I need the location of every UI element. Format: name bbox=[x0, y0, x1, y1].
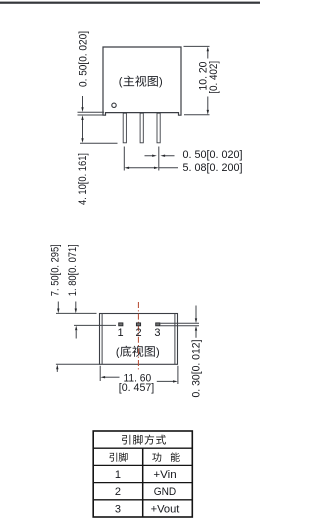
svg-text:): ) bbox=[159, 76, 163, 88]
table column header 功能 bbox=[152, 452, 179, 461]
table column header 引脚 bbox=[109, 453, 127, 462]
dimension 1.80[0.071]: lower arrow bbox=[75, 330, 77, 338]
svg-text:5. 08[0. 200]: 5. 08[0. 200] bbox=[183, 162, 243, 174]
bottom view: red center line (dash-dot) bbox=[137, 302, 139, 372]
dimension 5.08[0.200] pin pitch: extension lines below pins 1 and 3 bbox=[124, 147, 159, 171]
svg-text:3: 3 bbox=[154, 327, 160, 339]
dimension 10.20[0.402]: dimension line with arrows bbox=[207, 51, 209, 111]
extension line at case bottom (left) bbox=[56, 363, 100, 365]
svg-text:0. 30[0. 012]: 0. 30[0. 012] bbox=[191, 340, 203, 398]
svg-text:2: 2 bbox=[136, 327, 142, 339]
dimension 11.60[0.457]: left segment with arrow bbox=[105, 376, 120, 378]
svg-text:1: 1 bbox=[118, 327, 124, 339]
svg-text:1. 80[0. 071]: 1. 80[0. 071] bbox=[67, 244, 79, 296]
inner case lines (bottom view) bbox=[102, 314, 175, 365]
top page rule bbox=[0, 2, 260, 4]
svg-text:7. 50[0. 295]: 7. 50[0. 295] bbox=[50, 244, 62, 296]
dimension 1.80[0.071]: upper arrow bbox=[75, 302, 77, 309]
pin 1 pad (bottom view) bbox=[119, 323, 123, 326]
package outline (bottom view) bbox=[100, 314, 178, 365]
extension line at case top (left) bbox=[56, 312, 97, 314]
svg-text:[0. 402]: [0. 402] bbox=[208, 61, 220, 94]
dimension 0.30[0.012] pin thickness: arrows bbox=[195, 306, 197, 319]
pin-tip extension line bbox=[80, 142, 118, 144]
pin 1 lead (front view) bbox=[123, 113, 126, 143]
dimension 0.50[0.020] pin width: arrows converging on pin 3 bbox=[145, 155, 175, 157]
svg-text:GND: GND bbox=[154, 486, 177, 498]
svg-text:): ) bbox=[156, 346, 160, 358]
extension line at pin row (left) bbox=[74, 324, 116, 326]
extension lines at pin row (right, double) bbox=[160, 323, 199, 326]
dimension 10.20[0.402] body height: extension lines bbox=[184, 46, 210, 114]
pin table: outer border and grid bbox=[93, 431, 192, 517]
svg-text:3: 3 bbox=[115, 503, 121, 515]
svg-text:0. 50[0. 020]: 0. 50[0. 020] bbox=[183, 149, 243, 161]
dimension 11.60[0.457]: right segment with arrow bbox=[157, 380, 174, 382]
pin-1 marker circle bbox=[112, 103, 116, 107]
svg-text:0. 50[0. 020]: 0. 50[0. 020] bbox=[78, 31, 90, 87]
dimension 7.50[0.295]: upper arrow bbox=[57, 302, 59, 309]
svg-text:1: 1 bbox=[115, 469, 121, 481]
svg-text:[0. 457]: [0. 457] bbox=[119, 382, 154, 394]
pin 2 pad (bottom view) bbox=[136, 323, 140, 326]
dimension 4.10[0.161] pin length: dimension line with arrows bbox=[82, 120, 84, 139]
svg-text:2: 2 bbox=[115, 486, 121, 498]
svg-text:(: ( bbox=[116, 346, 120, 358]
label (主视图) front-view caption bbox=[119, 76, 163, 89]
package body outline (front view) bbox=[103, 47, 181, 115]
label (底视图) bottom-view caption bbox=[116, 346, 160, 359]
svg-text:(: ( bbox=[119, 76, 123, 88]
dimension 0.50[0.020] standoff: upper arrow bbox=[82, 96, 84, 108]
pin 3 pad (bottom view) bbox=[156, 323, 160, 326]
dimension 7.50[0.295]: lower arrow bbox=[56, 369, 58, 372]
dimension 11.60[0.457] body width: extension lines bbox=[100, 366, 178, 384]
svg-text:4. 10[0. 161]: 4. 10[0. 161] bbox=[77, 153, 89, 205]
pin 2 lead (front view) bbox=[140, 113, 143, 143]
pin 3 lead (front view) bbox=[157, 113, 160, 143]
table header 引脚方式 bbox=[122, 435, 166, 445]
svg-text:+Vin: +Vin bbox=[153, 469, 176, 481]
svg-text:+Vout: +Vout bbox=[151, 503, 180, 515]
dimension 0.50[0.020] standoff: extension lines bbox=[78, 112, 105, 115]
dimension 5.08[0.200]: dimension line with outward arrows and leader bbox=[129, 167, 179, 169]
